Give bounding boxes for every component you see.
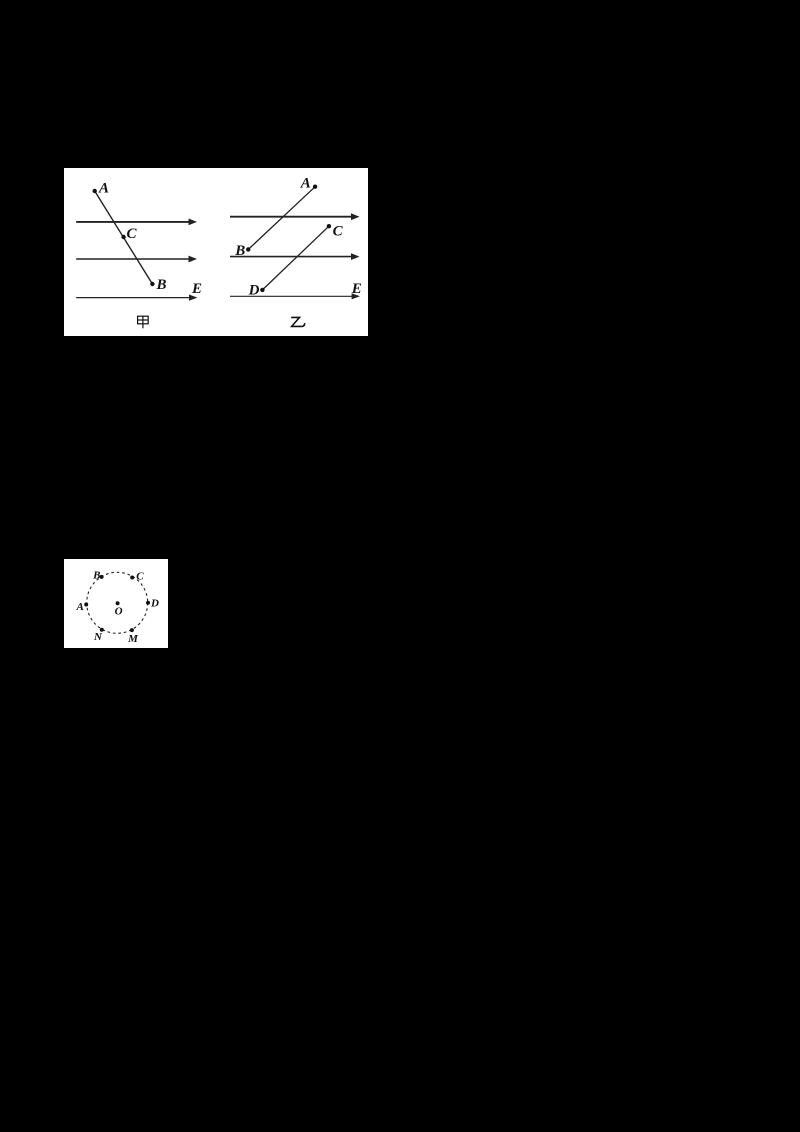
node C (jia) dot — [121, 235, 125, 239]
arrowhead yi line 1 — [351, 213, 360, 220]
node B (yi) dot — [246, 247, 250, 251]
node D (yi) dot — [260, 288, 264, 292]
svg-text:C: C — [333, 223, 344, 239]
svg-text:E: E — [351, 281, 362, 297]
arrowhead jia line 3 — [189, 295, 197, 301]
node A (yi) dot — [313, 185, 317, 189]
svg-text:D: D — [248, 283, 260, 299]
node N dot — [100, 628, 104, 632]
node O dot — [116, 601, 120, 605]
svg-text:B: B — [155, 277, 166, 293]
label 甲 (drawn glyph) — [138, 316, 149, 328]
node C (yi) dot — [327, 224, 331, 228]
node A dot — [84, 603, 88, 607]
wire: yi arrow line 2 — [230, 256, 352, 258]
svg-text:E: E — [191, 281, 202, 297]
svg-text:A: A — [300, 175, 311, 191]
arrowhead jia line 2 — [189, 256, 198, 263]
node C dot — [130, 576, 134, 580]
node M dot — [130, 628, 134, 632]
svg-text:A: A — [98, 180, 109, 196]
svg-text:C: C — [136, 570, 144, 582]
node B (jia) dot — [150, 282, 154, 286]
svg-text:M: M — [127, 633, 139, 645]
svg-text:B: B — [234, 243, 245, 259]
svg-text:A: A — [76, 601, 84, 613]
wire: yi segment B-A — [248, 187, 315, 250]
arrowhead jia line 1 — [189, 219, 198, 226]
svg-text:D: D — [150, 597, 159, 609]
node B dot — [100, 575, 104, 579]
wire: jia arrow line 2 — [76, 258, 189, 260]
figure box 2: dashed circle with points — [64, 559, 168, 648]
dashed circle O — [87, 572, 148, 633]
wire: yi segment D-C — [262, 226, 329, 290]
label 乙 (drawn glyph) — [291, 317, 305, 326]
wire: jia arrow line 3 — [76, 297, 189, 299]
wire: yi arrow line 3 — [230, 295, 352, 297]
arrowhead yi line 2 — [351, 253, 360, 260]
figure box 1: parallel lines diagrams 甲 and 乙 — [64, 168, 368, 336]
svg-text:N: N — [93, 631, 103, 643]
svg-text:O: O — [115, 605, 123, 617]
svg-text:C: C — [126, 226, 137, 242]
svg-text:B: B — [92, 569, 100, 581]
wire: jia transversal A-B — [95, 191, 153, 284]
node D dot — [146, 601, 150, 605]
wire: yi arrow line 1 — [230, 216, 352, 218]
node A (jia) dot — [93, 189, 97, 193]
arrowhead yi line 3 — [352, 293, 360, 299]
wire: jia arrow line 1 — [76, 221, 189, 223]
